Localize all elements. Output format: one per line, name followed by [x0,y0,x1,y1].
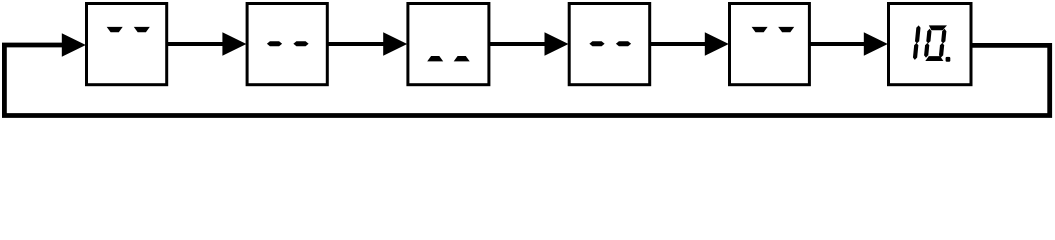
digit 0 seg e [924,43,929,58]
box3 segment [454,56,470,61]
block B (two middle segments) [247,4,327,85]
box1 segment [107,27,123,32]
arrowhead into block C [383,32,407,56]
block A (two top segments) [87,4,167,85]
feedback wire from block F right around bottom to block A input [4,45,1049,116]
digit 1 upper bar [915,25,921,43]
box2 segment [267,41,282,46]
digit 0 seg a [929,25,947,30]
wire from block B to block C [328,42,385,46]
arrowhead into block F [864,32,888,56]
box4 segment [616,41,631,46]
digit 0 seg b [941,29,946,44]
digit 0 seg f [926,29,931,44]
decimal point [946,57,951,62]
box5 segment [778,27,794,32]
arrowhead into block D [545,32,569,56]
block D (two middle segments) [569,4,650,85]
block E (two top segments) [730,4,810,85]
arrowhead into block A [62,33,86,57]
box5 segment [752,27,768,32]
block C (two bottom segments) [408,4,489,85]
wire from block A to block B [167,42,224,46]
wire from block E to block F [810,42,866,46]
box4 segment [589,41,604,46]
arrowhead into block B [222,32,246,56]
digit 0 seg c [939,43,944,58]
box3 segment [427,56,443,61]
digit 0 seg d [925,56,943,61]
wire from block D to block E [650,42,707,46]
digit 1 lower bar [913,43,918,60]
wire from block C to block D [489,42,546,46]
box1 segment [134,27,150,32]
box2 segment [293,41,308,46]
arrowhead into block E [705,32,729,56]
block F (display "10.") [889,4,972,85]
